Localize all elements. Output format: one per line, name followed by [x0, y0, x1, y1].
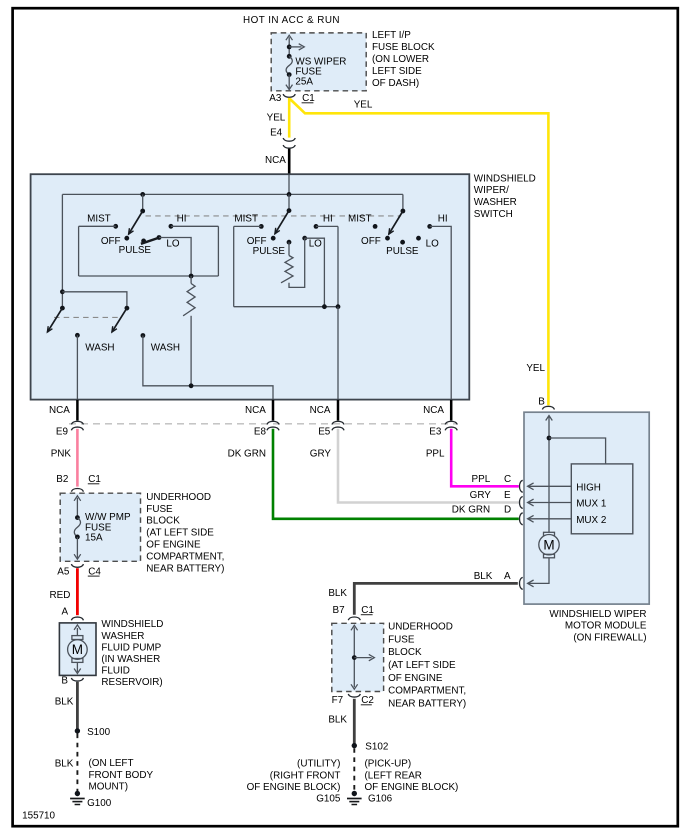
- svg-text:B: B: [61, 676, 68, 687]
- svg-text:NCA: NCA: [49, 405, 70, 416]
- svg-text:M: M: [543, 537, 554, 552]
- svg-text:PPL: PPL: [426, 448, 445, 459]
- svg-text:E3: E3: [429, 426, 442, 437]
- switch 1 contact loop wiring: [79, 225, 116, 227]
- svg-text:HIGH: HIGH: [576, 482, 601, 493]
- connector E5: [332, 421, 344, 424]
- svg-text:LO: LO: [309, 238, 322, 249]
- svg-text:NCA: NCA: [423, 405, 444, 416]
- svg-text:PPL: PPL: [472, 474, 491, 485]
- svg-text:WINDSHIELD: WINDSHIELD: [101, 619, 163, 630]
- svg-text:UNDERHOOD: UNDERHOOD: [388, 622, 453, 633]
- switch 1 PULSE-LO blade (closed): [141, 239, 146, 244]
- wire BLK from pump B to S100: [76, 682, 79, 729]
- svg-text:S102: S102: [365, 742, 388, 753]
- junction wire inside right fuse block: [353, 627, 355, 687]
- svg-text:PNK: PNK: [51, 448, 72, 459]
- svg-text:BLK: BLK: [55, 697, 74, 708]
- connector A at module: [519, 577, 522, 589]
- svg-text:FLUID PUMP: FLUID PUMP: [101, 642, 161, 653]
- svg-text:B7: B7: [333, 605, 345, 616]
- svg-text:OF ENGINE BLOCK): OF ENGINE BLOCK): [365, 782, 459, 793]
- svg-text:G100: G100: [87, 798, 112, 809]
- svg-text:NEAR BATTERY): NEAR BATTERY): [146, 563, 224, 574]
- connector E4 inline: [283, 138, 295, 141]
- svg-text:COMPARTMENT,: COMPARTMENT,: [388, 686, 466, 697]
- svg-text:E4: E4: [270, 127, 283, 138]
- svg-text:S100: S100: [87, 727, 111, 738]
- svg-text:FLUID: FLUID: [101, 666, 130, 677]
- svg-text:GRY: GRY: [310, 448, 332, 459]
- svg-text:MUX 1: MUX 1: [576, 499, 607, 510]
- windshield washer fluid pump: [59, 623, 96, 676]
- svg-text:C: C: [504, 474, 511, 485]
- connector E8: [267, 421, 279, 424]
- arrow HIGH to pin C: [529, 485, 572, 487]
- svg-text:PULSE: PULSE: [119, 245, 152, 256]
- svg-text:B2: B2: [56, 474, 68, 485]
- svg-text:BLK: BLK: [328, 588, 347, 599]
- wash contact 2 wiring to E8: [141, 333, 146, 338]
- svg-text:NCA: NCA: [245, 405, 266, 416]
- splice S100: [75, 728, 80, 733]
- switch 3 HI output to E3: [430, 226, 452, 399]
- svg-text:BLK: BLK: [328, 715, 347, 726]
- svg-text:OF ENGINE: OF ENGINE: [146, 540, 201, 551]
- fuse W/W PMP FUSE 15A: [76, 498, 78, 518]
- connector B at washer pump bottom: [71, 678, 83, 681]
- svg-text:FUSE: FUSE: [388, 634, 415, 645]
- ground G106: [352, 791, 357, 796]
- wire NCA output E5: [337, 400, 340, 421]
- svg-text:25A: 25A: [295, 77, 313, 88]
- svg-text:MIST: MIST: [348, 214, 372, 225]
- svg-text:HI: HI: [438, 214, 448, 225]
- svg-text:A3: A3: [269, 93, 282, 104]
- fuse WS WIPER FUSE 25A: [288, 37, 290, 56]
- arrow MUX 1 to pin E: [529, 502, 572, 504]
- svg-text:COMPARTMENT,: COMPARTMENT,: [146, 551, 224, 562]
- svg-text:OF DASH): OF DASH): [372, 78, 419, 89]
- motor ground wire to pin A: [529, 558, 549, 584]
- svg-text:(LEFT REAR: (LEFT REAR: [365, 770, 422, 781]
- windshield wiper motor module box: [524, 412, 649, 604]
- svg-text:YEL: YEL: [526, 363, 545, 374]
- wire YEL from A3 to E4: [288, 98, 291, 138]
- svg-text:B: B: [538, 396, 545, 407]
- svg-text:GRY: GRY: [470, 490, 492, 501]
- wire NCA feed inside box to bus: [288, 175, 290, 194]
- connector dashed line E row: [69, 423, 456, 425]
- bus wire across switch box: [62, 193, 403, 195]
- wire NCA output E8: [272, 400, 275, 421]
- svg-text:(PICK-UP): (PICK-UP): [365, 759, 412, 770]
- wire YEL branch from A3 to wiper motor module pin B: [290, 99, 548, 405]
- svg-text:E: E: [504, 490, 511, 501]
- svg-text:155710: 155710: [22, 811, 55, 822]
- switch arm 1 (MIST/OFF/HI/LO/PULSE): [142, 194, 144, 211]
- wire NCA output E3: [450, 400, 453, 421]
- svg-text:MIST: MIST: [234, 214, 258, 225]
- module internal feed wire from pin B: [548, 417, 550, 532]
- wire BLK dashed from S102 to G106: [353, 748, 355, 791]
- svg-text:WASH: WASH: [85, 343, 114, 354]
- wire RED from C4 to washer pump A: [76, 568, 79, 615]
- arrow MUX 2 to pin D: [529, 518, 572, 520]
- svg-text:DK GRN: DK GRN: [452, 504, 490, 515]
- svg-text:BLOCK: BLOCK: [146, 516, 180, 527]
- svg-text:BLOCK: BLOCK: [388, 647, 422, 658]
- wash switch feed wiring: [61, 194, 63, 308]
- underhood fuse block right (dashed box): [332, 623, 384, 691]
- svg-text:SWITCH: SWITCH: [474, 209, 513, 220]
- wire BLK from C2 to S102: [353, 699, 356, 744]
- svg-text:A5: A5: [57, 566, 70, 577]
- svg-text:(RIGHT FRONT: (RIGHT FRONT: [270, 770, 341, 781]
- wash switch mechanical dashed link: [54, 316, 121, 318]
- svg-text:OF ENGINE: OF ENGINE: [388, 673, 443, 684]
- svg-text:PULSE: PULSE: [253, 246, 286, 257]
- svg-text:LO: LO: [426, 238, 439, 249]
- svg-text:M: M: [72, 642, 83, 657]
- svg-text:W/W PMP: W/W PMP: [85, 512, 131, 523]
- svg-text:E9: E9: [56, 426, 69, 437]
- svg-text:A: A: [62, 606, 69, 617]
- svg-text:LEFT I/P: LEFT I/P: [372, 30, 411, 41]
- splice S102: [352, 743, 357, 748]
- svg-text:YEL: YEL: [354, 100, 373, 111]
- resistor R1 below switch 1 loop: [190, 276, 192, 284]
- svg-text:WASHER: WASHER: [474, 197, 517, 208]
- wire PNK from E9 to B2: [76, 429, 79, 487]
- svg-text:MOTOR MODULE: MOTOR MODULE: [565, 621, 647, 632]
- svg-text:NCA: NCA: [310, 405, 331, 416]
- svg-text:(AT LEFT SIDE: (AT LEFT SIDE: [146, 528, 214, 539]
- wash contact 1 to E9: [75, 333, 80, 338]
- washer pump motor M: [72, 636, 83, 640]
- svg-text:LEFT SIDE: LEFT SIDE: [372, 66, 422, 77]
- svg-text:FUSE: FUSE: [146, 504, 173, 515]
- svg-text:MOUNT): MOUNT): [89, 782, 129, 793]
- wire PPL from E3 to module pin C: [451, 429, 519, 487]
- svg-text:HI: HI: [177, 214, 187, 225]
- svg-text:UNDERHOOD: UNDERHOOD: [146, 492, 211, 503]
- svg-text:RESERVOIR): RESERVOIR): [101, 677, 162, 688]
- svg-text:BLK: BLK: [474, 571, 493, 582]
- switch arm 2 (MIST/OFF/HI/LO/PULSE): [288, 194, 290, 210]
- svg-text:OFF: OFF: [361, 236, 381, 247]
- svg-text:YEL: YEL: [267, 113, 286, 124]
- svg-text:NCA: NCA: [265, 155, 286, 166]
- switch arm 3 (MIST/OFF/HI/LO/PULSE): [402, 194, 404, 211]
- wire DK GRN from E8 to module pin D: [273, 429, 519, 519]
- connector E3: [445, 421, 457, 424]
- svg-text:F7: F7: [332, 695, 344, 706]
- svg-text:G106: G106: [368, 794, 393, 805]
- svg-text:OFF: OFF: [247, 236, 267, 247]
- svg-text:(UTILITY): (UTILITY): [297, 759, 340, 770]
- mechanical link dashed line between switch arms: [146, 215, 402, 217]
- svg-text:WINDSHIELD WIPER: WINDSHIELD WIPER: [549, 609, 646, 620]
- wiper motor M inside module: [544, 532, 555, 536]
- svg-text:DK GRN: DK GRN: [228, 448, 266, 459]
- wire BLK from module pin A to B7: [354, 583, 518, 614]
- svg-text:LO: LO: [166, 238, 179, 249]
- svg-text:A: A: [504, 571, 511, 582]
- svg-text:D: D: [504, 504, 511, 515]
- svg-text:MUX 2: MUX 2: [576, 515, 606, 526]
- svg-text:OF ENGINE BLOCK): OF ENGINE BLOCK): [247, 782, 341, 793]
- connector E9: [71, 421, 83, 424]
- svg-text:WIPER/: WIPER/: [474, 185, 509, 196]
- svg-text:FRONT BODY: FRONT BODY: [89, 770, 154, 781]
- resistor R2 between PULSE and LO of switch 2: [288, 242, 290, 255]
- wash switch 1 blade: [47, 308, 62, 332]
- svg-text:E8: E8: [254, 426, 267, 437]
- svg-text:(ON FIREWALL): (ON FIREWALL): [573, 632, 646, 643]
- svg-text:BLK: BLK: [55, 758, 74, 769]
- wire from junction to logic block: [549, 438, 606, 464]
- svg-text:FUSE BLOCK: FUSE BLOCK: [372, 42, 435, 53]
- svg-text:HOT IN ACC & RUN: HOT IN ACC & RUN: [243, 15, 340, 26]
- svg-text:(ON LOWER: (ON LOWER: [372, 54, 429, 65]
- svg-text:RED: RED: [50, 590, 71, 601]
- svg-text:(IN WASHER: (IN WASHER: [101, 654, 160, 665]
- svg-text:E5: E5: [318, 426, 331, 437]
- left I/P fuse block (dashed box): [271, 33, 366, 91]
- connector B at module top: [542, 406, 554, 409]
- connector A at washer pump: [71, 617, 83, 620]
- svg-text:WASHER: WASHER: [101, 631, 144, 642]
- switch 2 contact loop wiring: [234, 225, 262, 227]
- module logic block HIGH/MUX1/MUX2: [571, 464, 633, 534]
- wire GRY from E5 to module pin E: [338, 429, 519, 503]
- wire BLK dashed from S100 to G100: [76, 734, 78, 792]
- switch 2 output to E5: [337, 307, 339, 399]
- ground G100: [75, 791, 80, 796]
- svg-text:G105: G105: [316, 794, 341, 805]
- svg-text:WASH: WASH: [151, 343, 180, 354]
- underhood fuse block left (dashed box): [60, 493, 140, 561]
- svg-text:(AT LEFT SIDE: (AT LEFT SIDE: [388, 660, 456, 671]
- svg-text:(ON LEFT: (ON LEFT: [89, 758, 134, 769]
- svg-text:NEAR BATTERY): NEAR BATTERY): [388, 698, 466, 709]
- connector E at module: [519, 497, 522, 509]
- connector C at module: [519, 480, 522, 492]
- wash switch 2 blade: [112, 308, 127, 332]
- svg-text:HI: HI: [323, 214, 333, 225]
- svg-text:PULSE: PULSE: [386, 246, 419, 257]
- svg-text:15A: 15A: [85, 532, 103, 543]
- wire NCA from E4 into switch box: [288, 149, 291, 176]
- svg-text:WINDSHIELD: WINDSHIELD: [474, 173, 536, 184]
- svg-text:MIST: MIST: [87, 214, 111, 225]
- windshield wiper/washer switch box: [31, 174, 470, 399]
- connector D at module: [519, 513, 522, 525]
- wire NCA output E9: [76, 400, 79, 421]
